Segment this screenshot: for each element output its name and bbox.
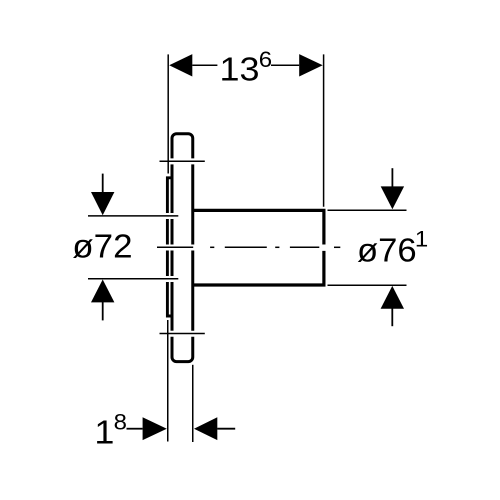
arrow up at o76 — [381, 286, 404, 309]
dimension o72 upper line — [88, 215, 178, 217]
extension line below flange right edge — [192, 365, 194, 442]
dimension 1^8 right stem — [217, 428, 235, 430]
svg-text:1: 1 — [94, 415, 114, 451]
svg-text:1: 1 — [415, 227, 428, 252]
tick line lower (thin line across flange) — [160, 333, 205, 335]
gasket G1 (thin seal in front of flange, with breaks) — [167, 178, 171, 316]
extension line right of pipe end — [323, 54, 325, 206]
arrow left of 13^6 — [169, 54, 192, 76]
arrow up at o72 — [91, 280, 114, 303]
arrow right-pointing at 1^8 — [143, 417, 167, 440]
dimension 1^8 left stem — [127, 428, 143, 430]
svg-text:ø76: ø76 — [357, 232, 417, 269]
pipe P1 (horizontal spigot, with centerline break in right edge) — [193, 210, 324, 285]
arrow left-pointing at 1^8 — [194, 417, 217, 440]
arrow down at o76 — [391, 168, 393, 187]
arrow right of 13^6 — [299, 54, 323, 76]
dimension o76 lower line — [328, 284, 407, 286]
dimension 13^6 line right segment — [271, 64, 299, 66]
svg-text:13: 13 — [220, 52, 260, 88]
tick line upper (thin line across flange) — [160, 160, 205, 162]
dimension o76 upper line — [328, 209, 407, 211]
extension line left (gasket face, lower part) — [167, 320, 169, 442]
dimension o72 lower line — [88, 278, 178, 280]
flange F1 (wall plate, rounded rectangle outline with breaks) — [172, 134, 193, 362]
dimension 13^6 line left segment — [192, 64, 217, 66]
svg-text:6: 6 — [259, 47, 272, 72]
extension line left (gasket face, upper part) — [167, 54, 169, 173]
centerline (dash-dot axis) — [157, 246, 340, 248]
svg-text:8: 8 — [114, 409, 127, 434]
arrow down at o72 — [102, 174, 104, 193]
svg-text:ø72: ø72 — [72, 229, 132, 266]
